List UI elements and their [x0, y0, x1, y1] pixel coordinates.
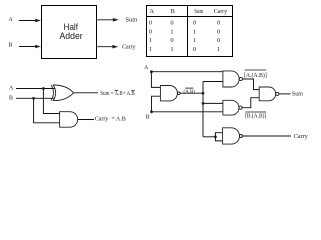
wire XOR output	[74, 92, 99, 94]
truth table header row A B Sum Carry	[149, 8, 228, 53]
wire NAND3 out to NAND4 in2	[242, 98, 259, 108]
svg-text:(A.B): (A.B)	[184, 88, 196, 95]
svg-text:0: 0	[170, 37, 173, 44]
wire Sum output	[279, 93, 291, 95]
svg-text:B: B	[171, 8, 176, 15]
svg-text:0: 0	[217, 28, 220, 35]
svg-text:Carry: Carry	[294, 133, 309, 140]
svg-text:Sum: Sum	[194, 8, 203, 15]
wire B branch to AND	[34, 98, 60, 123]
label [A.(A.B)]bar	[244, 72, 267, 79]
label Carry equation	[95, 116, 126, 123]
svg-text:0: 0	[149, 28, 152, 35]
svg-text:1: 1	[193, 28, 196, 35]
wire B horizontal to NAND3	[152, 111, 223, 113]
overbar on B (sum eq)	[131, 89, 134, 91]
NAND gate U3 ((A.B)' NAND B)	[223, 100, 239, 115]
node A junction	[150, 70, 153, 73]
svg-text:0: 0	[193, 20, 196, 27]
svg-text:0: 0	[170, 20, 173, 27]
truth table value rows	[149, 20, 220, 53]
junction tie	[214, 135, 217, 138]
svg-text:Sum: Sum	[125, 16, 137, 23]
wire NAND2 out to NAND4 in1	[242, 79, 259, 90]
overbar on A (sum eq)	[115, 89, 119, 91]
truth table column divider	[187, 6, 189, 57]
truth table header underline	[146, 16, 233, 18]
wire tie to NAND5 in2	[215, 137, 222, 141]
svg-text:B: B	[9, 43, 13, 49]
wire A into XOR	[16, 88, 55, 90]
label Carry	[294, 133, 309, 140]
NAND gate U5 (Carry inverter)	[223, 128, 240, 144]
input label A (XOR circuit)	[9, 86, 14, 92]
wire B into XOR	[16, 97, 55, 99]
svg-text:A: A	[149, 8, 154, 15]
output label Sum	[125, 16, 137, 23]
NAND gate U4 (Sum output)	[259, 87, 276, 101]
wire A branch to AND	[43, 89, 59, 114]
svg-text:1: 1	[149, 46, 152, 53]
wire input B arrow	[19, 46, 37, 48]
svg-text:0: 0	[217, 37, 220, 44]
output label Carry	[122, 44, 136, 51]
svg-text:0: 0	[217, 20, 220, 27]
wire B up to NAND1	[152, 96, 161, 112]
svg-text:[A.(A.B)]: [A.(A.B)]	[244, 72, 267, 79]
wire Carry output	[243, 135, 292, 137]
junction NAND1 out to bus	[202, 92, 205, 95]
svg-text:1: 1	[193, 37, 196, 44]
svg-text:[B.(A.B)]: [B.(A.B)]	[245, 112, 266, 119]
svg-text:Sum: Sum	[292, 91, 303, 98]
svg-text:Carry = A.B: Carry = A.B	[95, 116, 126, 123]
wire NAND1 output	[180, 92, 203, 94]
truth table frame	[147, 6, 233, 57]
input label B (block diagram)	[9, 43, 13, 49]
input label B (NAND circuit)	[146, 114, 150, 120]
wire input A arrow	[19, 20, 37, 22]
svg-text:Adder: Adder	[60, 31, 83, 41]
svg-text:0: 0	[193, 46, 196, 53]
wire A horizontal to NAND2	[151, 71, 223, 73]
node B junction	[150, 110, 153, 113]
wire output Sum arrow	[97, 19, 114, 21]
wire bus to NAND3 in1	[203, 102, 223, 104]
AND gate (Carry)	[60, 112, 78, 128]
svg-text:Sum = A.B+ A.B: Sum = A.B+ A.B	[100, 90, 134, 97]
bus vertical	[202, 82, 204, 137]
label [B.(A.B)]bar	[245, 112, 266, 119]
input label B (XOR circuit)	[9, 95, 13, 101]
wire output Carry arrow	[97, 46, 113, 48]
svg-text:1: 1	[170, 46, 173, 53]
wire tie to NAND5 in1	[215, 133, 222, 137]
input label A (NAND circuit)	[144, 65, 149, 71]
svg-text:0: 0	[149, 20, 152, 27]
svg-text:Carry: Carry	[214, 8, 228, 15]
XOR gate (Sum)	[51, 85, 74, 101]
svg-text:1: 1	[170, 28, 173, 35]
junction bus to NAND3	[202, 102, 205, 105]
svg-text:1: 1	[217, 46, 220, 53]
label Sum equation	[100, 90, 134, 97]
junction dot on B	[32, 97, 35, 100]
label Sum	[292, 91, 303, 98]
wire A down to NAND1	[151, 72, 160, 88]
input label A (block diagram)	[9, 17, 14, 23]
svg-text:Carry: Carry	[122, 44, 136, 51]
svg-text:B: B	[9, 95, 13, 101]
junction dot on A	[42, 87, 45, 90]
wire bus to NAND2 in2	[203, 81, 223, 83]
block Half Adder	[42, 6, 97, 59]
label Half Adder	[60, 22, 83, 41]
wire AND output	[78, 119, 94, 121]
wire bus down to carry NAND tie	[203, 136, 215, 138]
label (A.B)bar	[184, 88, 196, 95]
NAND gate U1 (A NAND B)	[160, 86, 177, 101]
svg-text:1: 1	[149, 37, 152, 44]
svg-text:B: B	[146, 114, 150, 120]
NAND gate U2 (A NAND (A.B)')	[223, 71, 239, 87]
